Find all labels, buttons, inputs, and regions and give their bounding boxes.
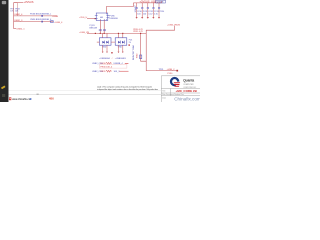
svg-text:BSS138: BSS138 [90, 28, 98, 30]
sheet bottom border line [9, 94, 162, 96]
capacitor PC33 [152, 3, 158, 19]
svg-text:+USB_4: +USB_4 [54, 22, 63, 24]
svg-text:wxw.chinafix.cm: wxw.chinafix.cm [12, 98, 31, 101]
svg-text:PR31: PR31 [100, 71, 106, 73]
svg-text:USB2_CN_P4 N4: USB2_CN_P4 N4 [131, 45, 133, 60]
wire PD30-PD31 link [111, 41, 115, 43]
sidebar pencil icon [1, 85, 6, 89]
Quanta logo white notch [176, 82, 181, 88]
wire rail end hook [161, 1, 163, 3]
wire left vertical bus [13, 3, 15, 29]
pin stubs U36 right [108, 15, 110, 17]
svg-text:USB2_1: USB2_1 [16, 29, 25, 31]
op-amp U36 box [96, 13, 108, 20]
wire into U36 [87, 18, 96, 20]
junction right of PD31 [128, 44, 130, 45]
diode array PD30 box [99, 38, 111, 45]
wire U36 bottom pin B [103, 20, 105, 33]
Quanta logo red bars [174, 82, 180, 83]
wire stub into PD30 left [97, 41, 100, 43]
diode array PD31 box [115, 38, 127, 45]
wire vertical drop B [146, 33, 177, 70]
svg-text:PR31 4.7K: PR31 4.7K [133, 31, 143, 33]
ground stub PD31 [119, 45, 123, 51]
svg-text:10K_3: 10K_3 [114, 71, 121, 73]
wire right rail [133, 3, 161, 7]
wire to +USB_VBUS [146, 26, 174, 34]
resistor on drop A [140, 55, 142, 59]
svg-text:+USB_C: +USB_C [167, 69, 176, 71]
junction at U36 left [95, 18, 96, 19]
svg-text:PR34: PR34 [135, 54, 137, 59]
junction row2 [42, 21, 43, 23]
svg-text:PR30 10K_4: PR30 10K_4 [100, 66, 113, 68]
Quanta logo Q ring [171, 78, 178, 85]
sidebar lower icon [2, 94, 5, 97]
svg-text:+USB3GB3: +USB3GB3 [115, 58, 127, 60]
svg-text:CN36 B3U/USB3GB_4: CN36 B3U/USB3GB_4 [30, 19, 52, 21]
wire main horizontal bus [87, 32, 146, 34]
bottom-left watermark red char [9, 97, 11, 100]
arrow end row A [125, 62, 129, 64]
svg-text:Date: Date [162, 97, 166, 100]
capacitor PC34 [158, 3, 164, 19]
resistor PR36 zigzag [106, 62, 111, 64]
title block frame [161, 76, 200, 102]
wire U36 top pin [106, 7, 133, 13]
svg-text:Chinafix.com: Chinafix.com [174, 96, 200, 101]
junction bus at 103 [100, 33, 101, 34]
svg-text:PC34: PC34 [160, 11, 165, 13]
wire vertical drop A [141, 33, 147, 61]
svg-text:+USB3GB4: +USB3GB4 [99, 58, 111, 60]
junction main bus [95, 33, 96, 34]
svg-text:+3VSUS: +3VSUS [134, 5, 136, 13]
highlight box PR30 [99, 65, 127, 69]
capacitor marks under U36 [99, 30, 106, 31]
svg-text:USB3GB: USB3GB [110, 18, 119, 20]
capacitor PC32 [147, 3, 153, 19]
svg-text:PJ30: PJ30 [168, 73, 174, 75]
bottom-left watermark blue dot [30, 98, 32, 100]
junctions over PD31 [118, 33, 119, 34]
wire row3 stub [14, 28, 16, 30]
ferrite bead row2 [51, 21, 54, 23]
svg-text:+3VS_U: +3VS_U [79, 17, 88, 19]
svg-text:Title: Title [162, 90, 165, 93]
wire row1 [14, 15, 57, 17]
svg-text:+3VSUS: +3VSUS [24, 0, 34, 4]
sheet background [0, 0, 200, 102]
capacitor PC30 [136, 3, 142, 19]
wire row B tail [120, 70, 129, 72]
sheet inner frame line [9, 90, 162, 92]
resistor PR33 vertical drop [14, 3, 18, 16]
tick on bottom border [37, 93, 39, 95]
ground stub PD30 a [103, 45, 107, 51]
wire row2 [14, 21, 54, 23]
wire top-left rail [14, 2, 24, 4]
svg-text:PU36 B3U/USB3GB_L: PU36 B3U/USB3GB_L [30, 13, 52, 15]
pin stubs U36 left [95, 15, 96, 18]
capacitor PC31 [141, 3, 147, 19]
junction drop A [140, 33, 141, 34]
junction under diode boxes [111, 52, 113, 54]
wire stubs into PD31 top [119, 33, 123, 37]
svg-text:TP31: TP31 [159, 69, 165, 71]
svg-text:+MX_CORE #B: +MX_CORE #B [176, 89, 198, 93]
wire U36 bottom pin A [99, 20, 101, 33]
sidebar panel [0, 0, 9, 102]
svg-text:4B0: 4B0 [49, 96, 54, 100]
svg-text:+USB_VBUS: +USB_VBUS [167, 24, 180, 26]
svg-text:+USB: +USB [52, 16, 58, 18]
svg-text:Liard 1 The computer contai o: Liard 1 The computer contai of Quanta Co… [97, 85, 152, 88]
junction row1 [42, 15, 43, 17]
resistor PR31 zigzag [106, 70, 111, 72]
svg-text:Quanta: Quanta [183, 79, 194, 83]
sidebar top icon [2, 1, 6, 4]
wire stubs into PD30 top [103, 33, 107, 37]
svg-text:COMPUTER: COMPUTER [183, 84, 194, 86]
